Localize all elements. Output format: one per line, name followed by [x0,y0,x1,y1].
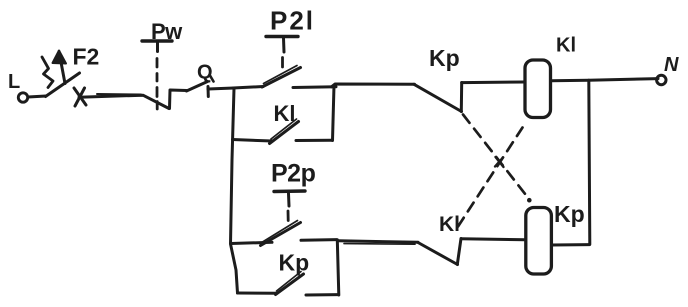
coil Kp [526,208,552,275]
X mark on wire [74,88,86,106]
svg-text:Kp: Kp [429,45,460,71]
NC contact Kp interlock top [414,83,462,112]
push button P2l [233,37,336,89]
svg-text:Kl: Kl [274,101,296,126]
wire bottom branch output [339,241,419,244]
wire F2 to Pw contact [79,94,169,109]
push button P2p [231,191,339,295]
svg-text:Pw: Pw [151,19,183,44]
svg-text:N: N [664,54,679,76]
wire to coil Kl [462,81,524,85]
contact Kp seal-in bottom [238,272,339,296]
svg-text:Kp: Kp [279,250,310,276]
NC contact Kl interlock bottom [418,239,461,265]
contact Kl seal-in top [233,86,335,144]
mechanical link dashed to Kl coil [458,128,523,227]
wire to coil Kp [461,239,526,240]
wire coil Kl to N [551,79,658,81]
right bus vertical [589,80,590,244]
svg-text:F2: F2 [73,44,100,70]
switch Q [187,76,214,97]
svg-text:P2p: P2p [271,160,316,188]
mechanical link dashed to Kp coil [463,115,532,203]
svg-text:L: L [8,71,20,93]
wire top branch output [332,84,415,87]
svg-text:P2l: P2l [270,6,315,36]
terminal L [18,93,27,102]
x mark at link crossing [495,157,504,167]
svg-text:Kl: Kl [556,35,576,57]
pressure switch Pw actuator [142,41,172,109]
Pw contact fixed terminal [170,90,187,109]
svg-text:Kl: Kl [439,213,460,236]
wire L to F2 [28,96,46,97]
terminal N [657,75,666,84]
wire coil Kp to right bus [552,243,590,246]
wire Q to left bus [208,88,234,89]
left bus vertical [231,89,238,294]
svg-text:Kp: Kp [554,201,585,227]
coil Kl [525,60,551,118]
circuit breaker F2 [42,51,80,97]
svg-text:Q: Q [197,62,213,84]
